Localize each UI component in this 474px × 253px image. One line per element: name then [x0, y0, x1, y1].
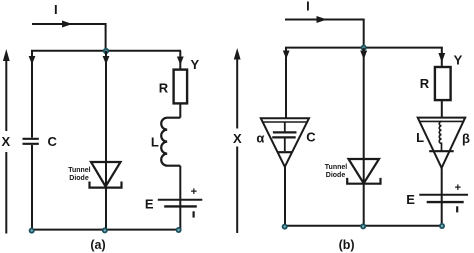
arrowhead on input lead I (a) — [62, 21, 73, 28]
current arrowhead into R branch (a) — [177, 57, 184, 66]
capacitor C (a) — [23, 138, 39, 140]
svg-text:α: α — [256, 130, 264, 145]
battery E plate long (b) — [419, 194, 468, 196]
battery E plate short (b) — [427, 201, 464, 203]
node dot bottom-right (b) — [439, 223, 445, 229]
svg-text:Diode: Diode — [69, 175, 89, 182]
beta device triangle (b) — [418, 118, 466, 168]
svg-text:R: R — [420, 76, 430, 91]
svg-text:E: E — [406, 192, 415, 207]
svg-text:X: X — [1, 134, 10, 149]
tunnel diode D1 (a) — [91, 162, 121, 187]
inductor L inside beta (b) — [439, 121, 441, 151]
wire: R branch top segment (b) — [441, 48, 443, 67]
svg-text:Y: Y — [190, 57, 199, 72]
wire: alpha branch top segment (b) — [285, 48, 287, 119]
wire: top bus (b) — [285, 47, 443, 49]
current arrowhead into C branch (a) — [29, 56, 36, 65]
wire: L to battery segment (a) — [179, 166, 181, 230]
arrowhead on input lead I (b) — [317, 16, 328, 23]
wire: input lead I (b) — [285, 20, 364, 48]
node dot bottom-middle (b) — [360, 223, 366, 229]
svg-text:(b): (b) — [339, 238, 355, 252]
beta device bottom bar (b) — [429, 150, 454, 152]
arrow X (voltage arrow, circuit b) — [236, 58, 238, 129]
wire: bottom bus (b) — [285, 225, 443, 227]
battery minus tick (a) — [193, 211, 195, 217]
node dot bottom-right (a) — [176, 227, 182, 233]
wire: alpha branch bottom segment (b) — [284, 167, 286, 226]
alpha device bottom bar (b) — [278, 151, 292, 153]
current arrowhead into diode branch (a) — [103, 56, 110, 65]
svg-text:β: β — [462, 131, 470, 146]
wire: tunnel diode branch (a) — [105, 51, 107, 230]
wire: capacitor branch upper segment (a) — [31, 51, 33, 138]
current arrowhead into R branch (b) — [438, 53, 445, 63]
svg-text:C: C — [306, 130, 316, 145]
battery minus tick (b) — [456, 206, 458, 212]
wire: R to beta segment (b) — [441, 100, 443, 118]
svg-text:Diode: Diode — [326, 172, 346, 179]
node dot bottom-left (a) — [29, 228, 35, 234]
svg-text:+: + — [455, 182, 461, 194]
wire: R branch top segment (a) — [179, 51, 181, 70]
svg-text:+: + — [191, 186, 197, 198]
svg-text:Y: Y — [454, 53, 463, 68]
svg-text:L: L — [416, 130, 424, 145]
capacitor C inside alpha (b) — [284, 122, 286, 132]
tunnel diode D2 (b) — [349, 159, 380, 183]
alpha device triangle (b) — [261, 118, 309, 167]
wire: top bus (a) — [31, 50, 181, 52]
arrow X (voltage arrow, circuit a) — [5, 58, 7, 131]
resistor R (a) — [174, 70, 188, 104]
battery E plate short (a) — [164, 205, 197, 207]
svg-text:(a): (a) — [90, 238, 105, 252]
svg-text:R: R — [159, 81, 169, 96]
wire: bottom bus (a) — [31, 229, 180, 231]
battery E plate long (a) — [158, 199, 203, 201]
svg-text:C: C — [48, 134, 58, 149]
current arrowhead into alpha branch (b) — [283, 51, 290, 60]
resistor R (b) — [435, 67, 451, 100]
wire: beta to battery segment (b) — [441, 168, 443, 226]
svg-text:L: L — [151, 135, 159, 150]
wire: input lead I (a) — [32, 24, 106, 50]
wire: tunnel diode branch (b) — [363, 48, 365, 226]
node dot bottom-left (b) — [282, 224, 288, 230]
node junction dot top (a) — [103, 48, 109, 54]
inductor L (a) — [161, 118, 180, 166]
wire: R to L segment (a) — [179, 103, 181, 117]
svg-text:X: X — [233, 131, 242, 146]
svg-text:E: E — [145, 196, 154, 211]
node junction dot top (b) — [361, 45, 367, 51]
wire: capacitor branch lower segment (a) — [31, 145, 33, 230]
node dot bottom-middle (a) — [102, 227, 108, 233]
svg-text:I: I — [54, 2, 58, 17]
svg-text:I: I — [306, 0, 310, 13]
current arrowhead into diode branch (b) — [360, 51, 367, 60]
svg-text:Tunnel: Tunnel — [68, 167, 90, 174]
svg-text:Tunnel: Tunnel — [325, 164, 347, 171]
